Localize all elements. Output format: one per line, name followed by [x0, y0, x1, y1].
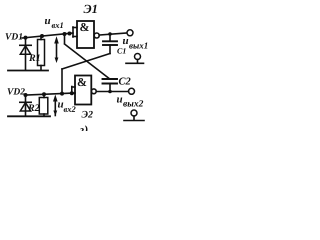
svg-text:u: u	[123, 35, 129, 47]
coupling wire A: node A to C2 top	[64, 34, 66, 43]
node B wire	[26, 93, 75, 95]
lower terminal of output 1	[126, 54, 144, 64]
svg-text:вх2: вх2	[64, 104, 77, 114]
svg-text:C2: C2	[119, 77, 132, 88]
diode VD2	[20, 93, 31, 116]
svg-text:Э2: Э2	[82, 110, 94, 121]
svg-text:VD1: VD1	[5, 33, 23, 43]
svg-text:вх1: вх1	[52, 20, 64, 30]
output terminal u_vyh2	[129, 88, 135, 94]
output wire 2	[96, 91, 128, 93]
input arrow u_vx2	[53, 95, 58, 117]
svg-text:R1: R1	[28, 53, 41, 64]
node A wire	[22, 33, 73, 38]
svg-text:г): г)	[80, 123, 89, 131]
junction dot output 1	[108, 32, 112, 36]
gate U1 (Э1)	[73, 21, 99, 48]
node B junction dot 2	[70, 91, 74, 95]
svg-text:&: &	[80, 20, 90, 34]
gate U2 (Э2)	[72, 76, 96, 105]
output wire 1	[99, 33, 126, 35]
capacitor C1	[103, 34, 117, 54]
svg-text:u: u	[117, 94, 123, 106]
svg-text:R2: R2	[27, 103, 40, 114]
svg-text:VD2: VD2	[7, 88, 25, 98]
lower terminal of output 2	[124, 110, 144, 121]
input arrow u_vx1	[54, 36, 59, 63]
junction dot output 2	[108, 90, 112, 94]
svg-text:C1: C1	[117, 47, 126, 56]
svg-text:Э1: Э1	[84, 2, 98, 16]
svg-text:&: &	[77, 75, 87, 89]
output terminal u_vyh1	[127, 30, 133, 36]
node B junction dot 1	[60, 92, 64, 96]
node A junction dot 2	[68, 32, 72, 36]
coupling wire B: node B to C1 bottom	[61, 69, 63, 93]
diode VD1	[20, 36, 31, 70]
capacitor C2	[103, 79, 118, 92]
resistor R2	[39, 92, 48, 116]
ground rail top-left	[8, 70, 48, 72]
svg-text:вых1: вых1	[129, 40, 148, 50]
resistor R1	[38, 34, 45, 70]
svg-text:вых2: вых2	[123, 100, 144, 110]
svg-text:u: u	[45, 15, 51, 27]
node A junction dot 1	[63, 32, 67, 36]
ground rail bottom-left	[8, 115, 50, 117]
